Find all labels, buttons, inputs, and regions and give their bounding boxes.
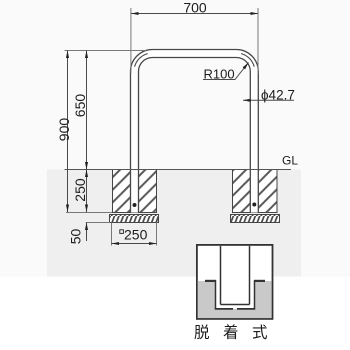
svg-text:GL: GL: [282, 154, 298, 168]
svg-text:650: 650: [72, 94, 88, 118]
svg-text:50: 50: [68, 229, 84, 245]
svg-text:ϕ42.7: ϕ42.7: [261, 88, 295, 103]
svg-text:R100: R100: [204, 67, 235, 82]
svg-text:250: 250: [72, 178, 88, 202]
svg-text:250: 250: [124, 227, 148, 243]
svg-text:900: 900: [56, 118, 72, 142]
svg-text:脱着式: 脱着式: [194, 324, 281, 342]
svg-text:700: 700: [183, 0, 207, 16]
